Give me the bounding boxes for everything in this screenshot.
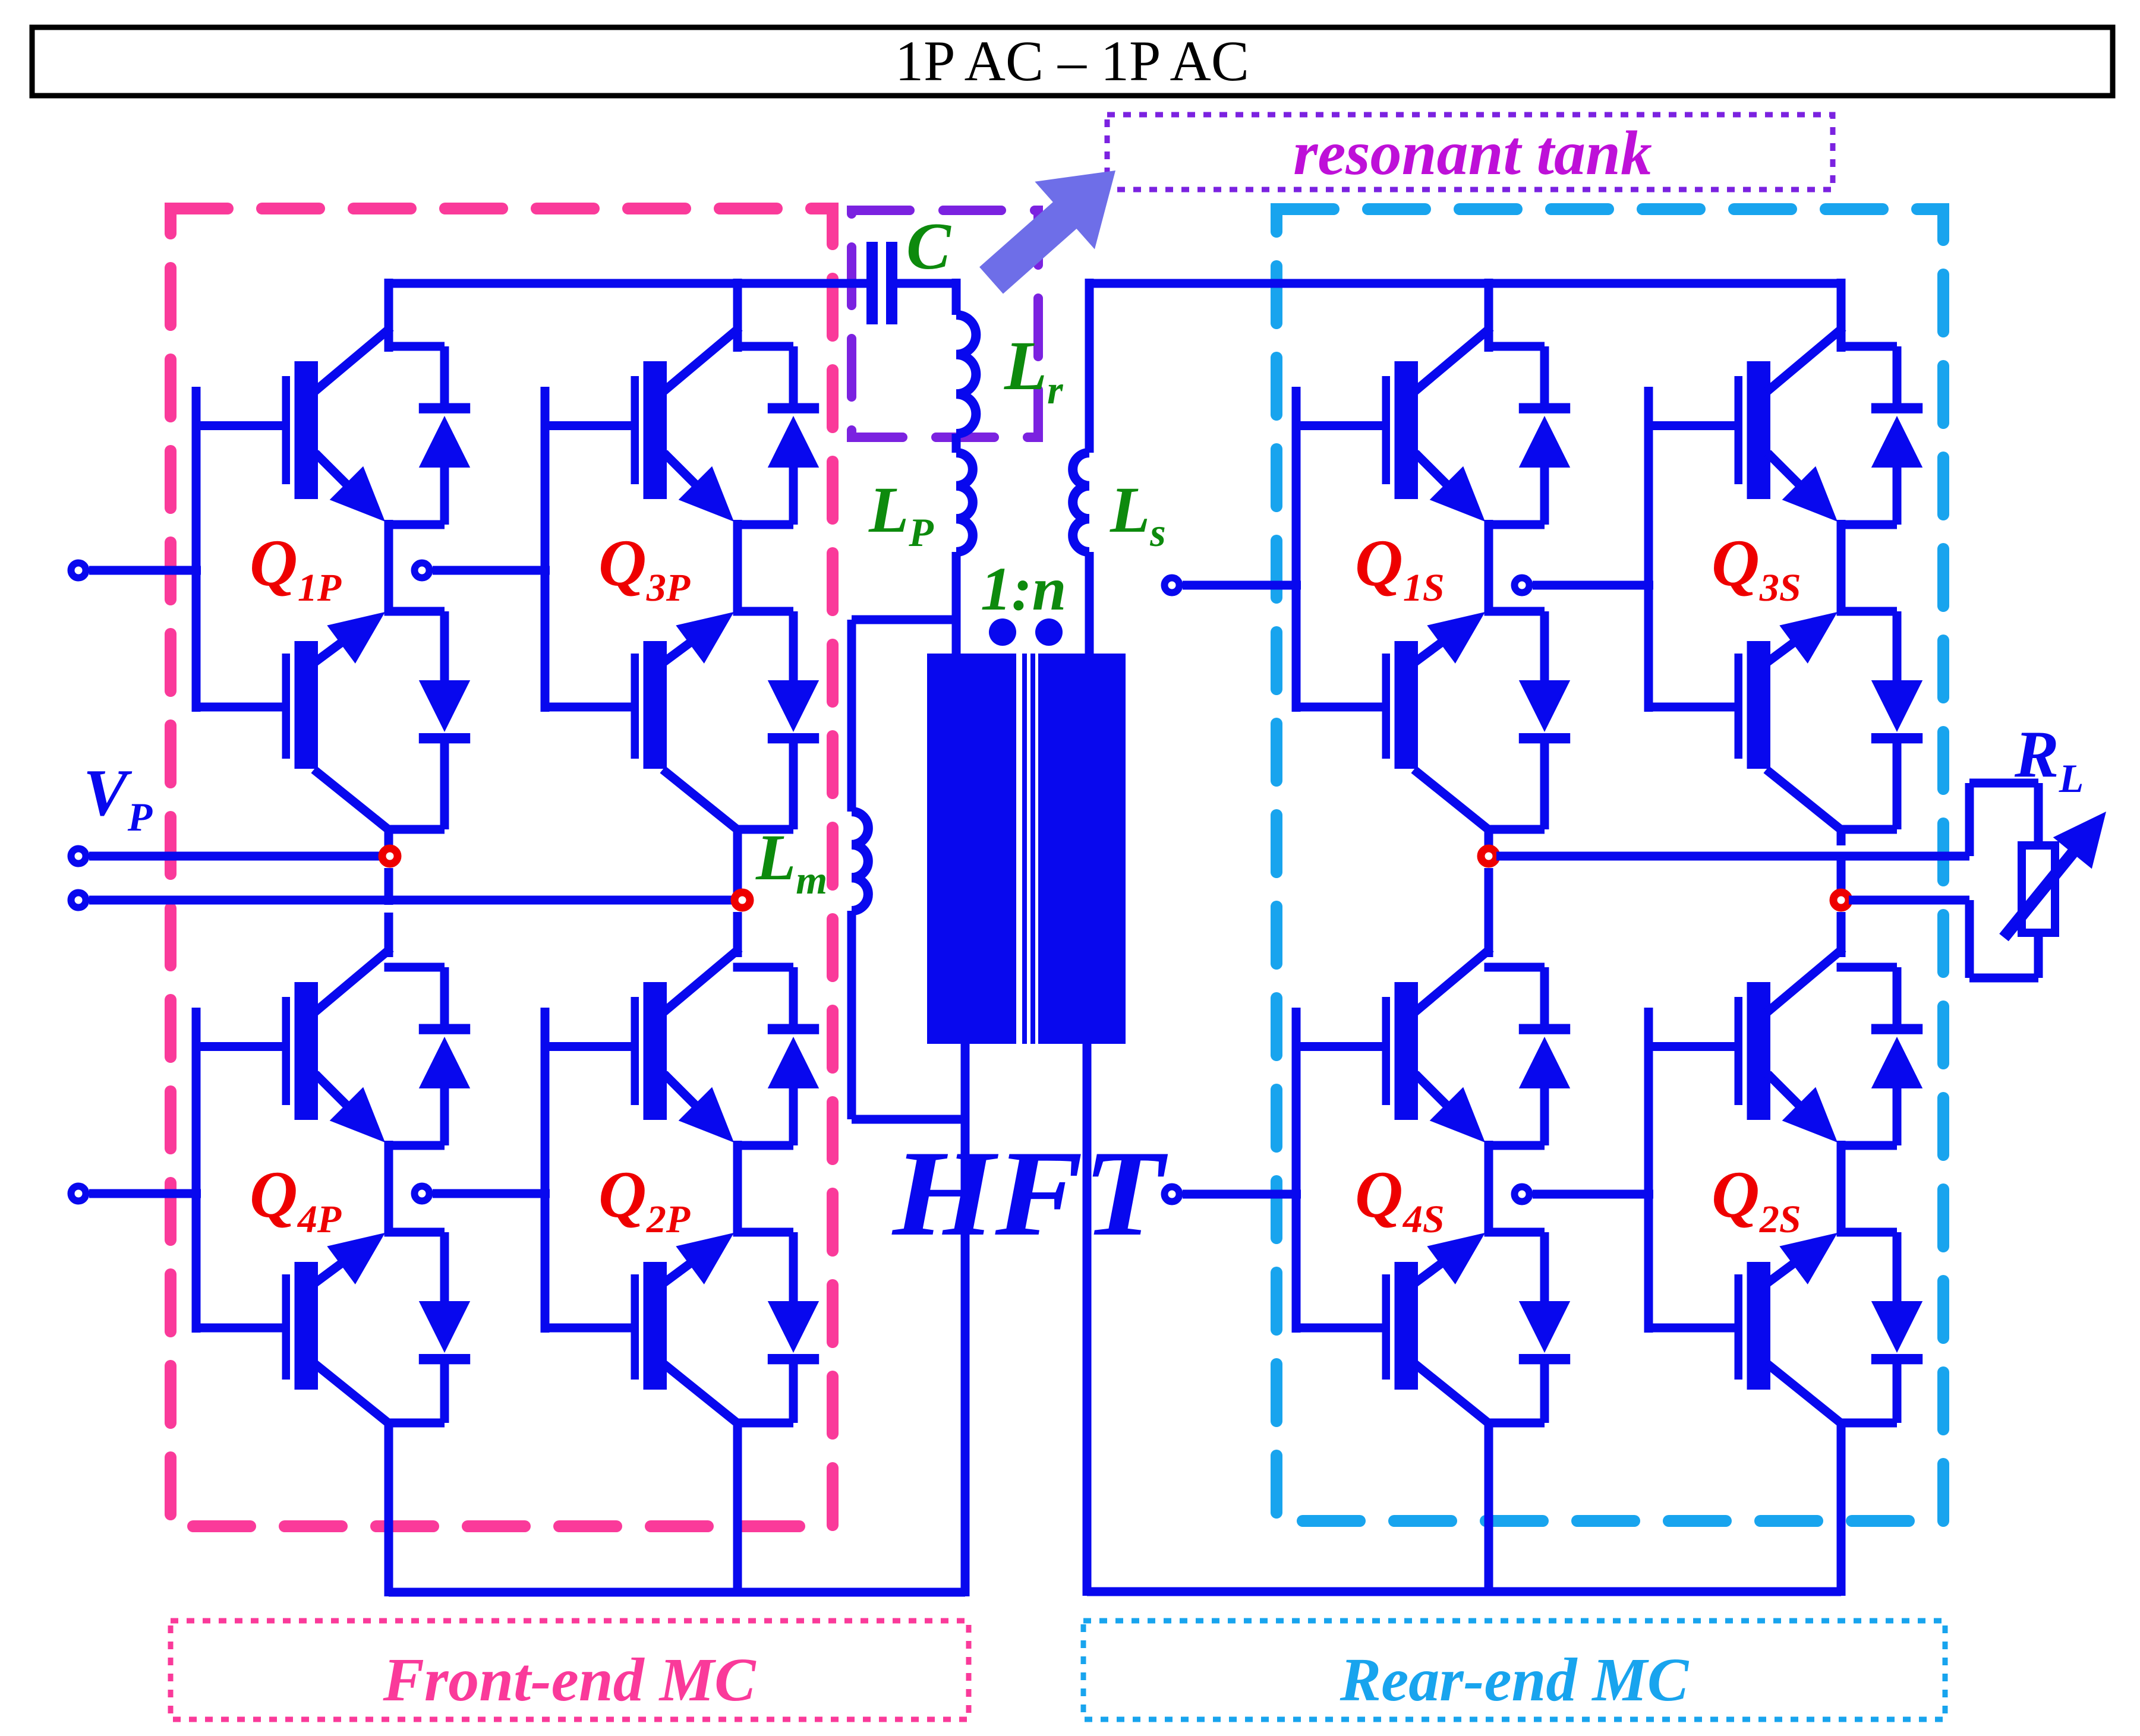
wire: leg C below output node — [1485, 868, 1493, 957]
wire: leg B down to VP node — [733, 829, 742, 900]
wire: Q4S bottom lead — [1485, 1422, 1493, 1596]
wire: front-end bottom bus — [389, 1588, 965, 1597]
resonant tank component boundary (purple dashed box) — [852, 210, 1038, 437]
diode Q1P upper (anti-parallel) — [384, 342, 471, 529]
wire: Q1S gate rail — [1292, 387, 1301, 712]
IGBT Q1P lower (gate, body, collector, emitter arrow) — [196, 612, 387, 829]
IGBT Q2P upper (gate, body, collector, emitter arrow) — [545, 951, 736, 1142]
diode Q3P lower (anti-parallel) — [733, 607, 820, 834]
wire: primary to transformer — [952, 552, 961, 654]
resistor RL (variable) — [1999, 812, 2106, 941]
wire: leg B below VP node — [733, 912, 742, 957]
wire: Q2S mid node — [1837, 1141, 1846, 1236]
terminal: Q1S gate input — [1165, 578, 1180, 593]
wire: Q1P mid node — [384, 520, 393, 616]
IGBT Q4S lower (gate, body, collector, emitter arrow) — [1296, 1233, 1487, 1422]
wire: secondary bottom lead — [1083, 1044, 1092, 1596]
diode Q2S upper (anti-parallel) — [1837, 963, 1923, 1150]
arrow pointing to resonant tank — [979, 171, 1115, 294]
svg-text:1P AC – 1P AC: 1P AC – 1P AC — [895, 29, 1249, 93]
wire: Q2S gate rail — [1644, 1008, 1653, 1333]
svg-text:Rear-end MC: Rear-end MC — [1340, 1646, 1690, 1714]
IGBT Q4P upper (gate, body, collector, emitter arrow) — [196, 951, 387, 1142]
inductor Ls (leakage secondary) — [1073, 453, 1089, 552]
wire: primary bottom lead — [961, 1044, 970, 1596]
diode Q4P upper (anti-parallel) — [384, 963, 471, 1150]
capacitor C — [866, 242, 956, 324]
wire: Q2P bottom lead — [733, 1422, 742, 1596]
wire: Q1S gate input — [1183, 581, 1301, 590]
wire: Q1S mid node — [1485, 520, 1493, 616]
diode Q2S lower (anti-parallel) — [1837, 1228, 1923, 1428]
polarity dot secondary — [1035, 618, 1063, 646]
diode Q3S lower (anti-parallel) — [1837, 607, 1923, 834]
wire: Q1P-Q3P link — [433, 566, 550, 575]
wire: Q4S mid node — [1485, 1141, 1493, 1236]
wire: Q4P bottom lead — [384, 1422, 393, 1596]
wire: Q3P mid node — [733, 520, 742, 616]
wire: Q4P mid node — [384, 1141, 393, 1236]
IGBT Q2P lower (gate, body, collector, emitter arrow) — [545, 1233, 736, 1422]
IGBT Q3P upper (gate, body, collector, emitter arrow) — [545, 330, 736, 522]
rear-end MC caption box (cyan dotted) — [1083, 1621, 1945, 1719]
wire: leg D down to output node — [1837, 829, 1846, 900]
IGBT Q4S upper (gate, body, collector, emitter arrow) — [1296, 951, 1487, 1142]
wire: primary top bus — [389, 279, 866, 288]
rear-end MC boundary (cyan dashed box) — [1277, 209, 1943, 1521]
wire: VP positive to leg A — [89, 852, 380, 861]
wire: Q4S-Q2S link — [1533, 1190, 1653, 1199]
IGBT Q1P upper (gate, body, collector, emitter arrow) — [196, 330, 387, 522]
inductor LP (leakage primary) — [956, 453, 973, 552]
wire: Q4S gate input — [1183, 1190, 1301, 1199]
wire: Q2P mid node — [733, 1141, 742, 1236]
wire: Q1P gate input — [89, 566, 201, 575]
wire: VP negative to leg B — [89, 896, 733, 905]
wire: leg D below output node — [1837, 912, 1846, 957]
IGBT Q3P lower (gate, body, collector, emitter arrow) — [545, 612, 736, 829]
IGBT Q3S lower (gate, body, collector, emitter arrow) — [1649, 612, 1840, 829]
wire: leg A below VP node — [384, 868, 393, 957]
IGBT Q2S lower (gate, body, collector, emitter arrow) — [1649, 1233, 1840, 1422]
diode Q2P lower (anti-parallel) — [733, 1228, 820, 1428]
node: output junction leg D — [1833, 892, 1849, 908]
inductor Lr — [952, 279, 976, 453]
svg-text:Front-end MC: Front-end MC — [382, 1646, 757, 1714]
wire: Q2S bottom lead — [1837, 1422, 1846, 1596]
IGBT Q3S upper (gate, body, collector, emitter arrow) — [1649, 330, 1840, 522]
polarity dot primary — [989, 618, 1016, 646]
diode Q4S lower (anti-parallel) — [1485, 1228, 1571, 1428]
wire: Q3P gate rail — [541, 387, 550, 712]
title box — [32, 27, 2113, 96]
terminal: VP negative — [71, 893, 86, 908]
terminal: Q1P gate input — [71, 563, 86, 578]
diode Q1S upper (anti-parallel) — [1485, 342, 1571, 529]
wire: Q1S collector lead — [1485, 279, 1493, 352]
node: VP junction leg A — [382, 848, 398, 864]
transformer HFT core — [1022, 654, 1035, 1044]
wire: Q3P collector lead — [733, 279, 742, 352]
terminal: Q4S gate input — [1165, 1187, 1180, 1202]
wire: Q1P gate rail — [192, 387, 201, 712]
terminal: VP positive — [71, 849, 86, 864]
svg-text:C: C — [906, 210, 951, 283]
svg-text:1:n: 1:n — [981, 555, 1066, 623]
diode Q1P lower (anti-parallel) — [384, 607, 471, 834]
wire: output upper to load — [1496, 779, 2043, 861]
wire: leg C to output node — [1485, 829, 1493, 856]
wire: Q3S mid node — [1837, 520, 1846, 616]
terminal: Q1S-Q3S link — [1515, 578, 1530, 593]
svg-text:resonant tank: resonant tank — [1293, 118, 1652, 188]
front-end MC boundary (pink dashed box) — [171, 209, 833, 1526]
diode Q4P lower (anti-parallel) — [384, 1228, 471, 1428]
transformer HFT primary winding — [927, 654, 1016, 1044]
IGBT Q4P lower (gate, body, collector, emitter arrow) — [196, 1233, 387, 1422]
wire: leg A to VP node — [384, 829, 393, 856]
diode Q1S lower (anti-parallel) — [1485, 607, 1571, 834]
node: VP junction leg B — [735, 892, 750, 908]
wire: secondary top lead — [1085, 279, 1094, 453]
wire: Q1S-Q3S link — [1533, 581, 1653, 590]
svg-text:HFT: HFT — [891, 1125, 1168, 1261]
IGBT Q2S upper (gate, body, collector, emitter arrow) — [1649, 951, 1840, 1142]
terminal: Q4P gate input — [71, 1186, 86, 1201]
wire: Q1P collector lead — [384, 279, 393, 352]
wire: Q4P gate input — [89, 1189, 201, 1198]
IGBT Q1S upper (gate, body, collector, emitter arrow) — [1296, 330, 1487, 522]
inductor Lm (magnetizing) — [847, 616, 966, 1124]
wire: Q4P-Q2P link — [433, 1189, 550, 1198]
wire: Q3S gate rail — [1644, 387, 1653, 712]
diode Q2P upper (anti-parallel) — [733, 963, 820, 1150]
front-end MC caption box (pink dotted) — [171, 1621, 969, 1719]
wire: rear-end bottom bus — [1087, 1587, 1841, 1596]
wire: secondary top bus — [1089, 279, 1841, 288]
terminal: Q4S-Q2S link — [1515, 1187, 1530, 1202]
wire: output lower to load — [1849, 896, 2043, 983]
node: output junction leg C — [1481, 848, 1496, 864]
resonant tank label box (purple dotted) — [1107, 115, 1833, 190]
wire: Q4P gate rail — [192, 1008, 201, 1333]
diode Q4S upper (anti-parallel) — [1485, 963, 1571, 1150]
transformer HFT secondary winding — [1038, 654, 1126, 1044]
wire: Q4S gate rail — [1292, 1008, 1301, 1333]
terminal: Q4P-Q2P link — [415, 1186, 430, 1201]
terminal: Q1P-Q3P link — [415, 563, 430, 578]
wire: Q3S collector lead — [1837, 279, 1846, 352]
wire: secondary to transformer — [1085, 552, 1094, 654]
IGBT Q1S lower (gate, body, collector, emitter arrow) — [1296, 612, 1487, 829]
wire: Q2P gate rail — [541, 1008, 550, 1333]
diode Q3S upper (anti-parallel) — [1837, 342, 1923, 529]
diode Q3P upper (anti-parallel) — [733, 342, 820, 529]
